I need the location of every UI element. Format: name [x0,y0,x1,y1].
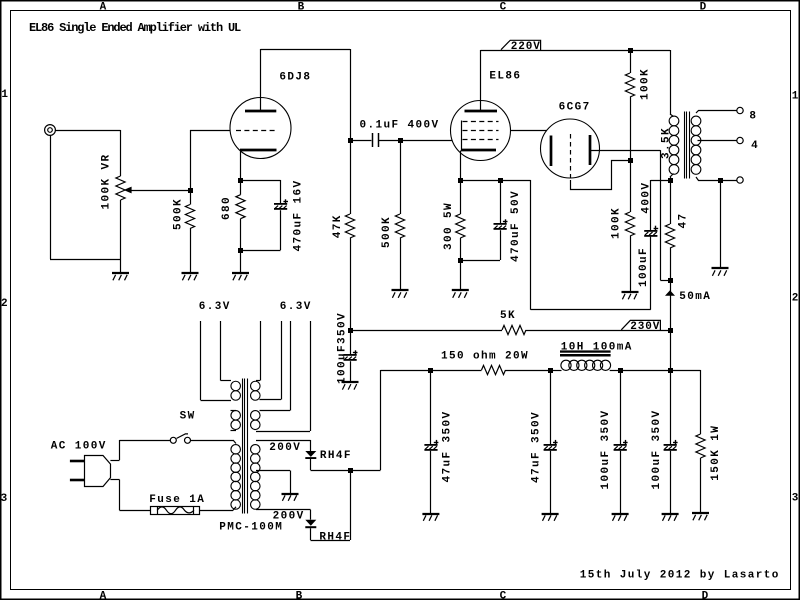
flag 230V outline [621,320,660,330]
wire heater lead 6 horn [256,431,310,433]
wire C7 bottom lead [550,451,552,514]
wire HV top lead [256,440,311,442]
node secondary ground junction [718,178,723,183]
tube V2 g2 dashes [463,130,499,132]
svg-text:6.3V: 6.3V [280,301,312,313]
svg-text:RH4F: RH4F [320,450,352,462]
switch SW pole [170,437,176,443]
node V2 cathode bottom junction [458,258,463,263]
plug P1 prong lower [70,479,84,482]
node filter cap 1 junction [428,368,433,373]
wire to switch [120,440,171,442]
tube V3 6CG7 envelope [541,119,600,178]
wire R-680 bottom lead [240,219,242,250]
wire C8 bottom lead [620,451,622,514]
capacitor C4 100uF 400V [644,226,658,237]
svg-text:8: 8 [749,111,757,123]
ground under C8 [612,514,629,521]
svg-text:AC 100V: AC 100V [51,441,107,453]
terminal 4 ohm [737,137,743,143]
svg-text:D: D [702,590,710,600]
svg-text:47uF 350V: 47uF 350V [442,410,454,482]
tube V3 grid dashes [570,134,572,180]
diode D1 RH4F [305,451,316,457]
transformer T1 primary winding [669,116,679,174]
wire V1 cathode lead [240,151,242,181]
transformer T1 core [684,112,686,179]
svg-text:500K: 500K [173,198,185,230]
transformer T2 heater winding right-b [251,411,260,430]
wire HV bottom lead [256,509,311,511]
wire D2 cathode down [310,528,312,540]
wire VR bottom lead [120,200,122,273]
node top rail junction [628,48,633,53]
fuse F1 body [151,507,200,515]
wire to diode D1 [310,440,312,451]
transformer T2 core [242,379,244,514]
wire arrow segment [670,280,672,330]
node grid divider junction [628,158,633,163]
wire to fuse [120,510,151,512]
svg-text:C: C [500,1,508,13]
tube V2 cathode bar [461,149,496,152]
tube V1 grid dashes [236,130,277,132]
wire R-300 bottom lead [460,238,462,260]
tube V2 plate bar [465,110,498,113]
svg-text:RH4F: RH4F [319,531,351,543]
wire R-47 top lead [670,180,672,224]
wire plug neutral drop [119,480,121,511]
plug P1 body [85,456,111,487]
wire down to plate node [350,49,352,140]
svg-text:6CG7: 6CG7 [559,102,591,114]
capacitor C2 470uF 16V [274,199,288,210]
wire VR top lead [120,130,122,176]
resistor R3 47K zigzag [345,214,354,238]
switch SW lever [177,434,188,439]
wire R-100K-a bottom lead [630,97,632,161]
resistor R2 680 zigzag [236,195,245,219]
potentiometer VR1 wiper arrow [124,187,132,194]
wire OPT secondary top lead [696,111,737,114]
svg-text:680: 680 [221,196,233,220]
wire wiper to grid node [131,190,190,192]
wire unused winding stub bottom [231,430,237,432]
wire primary bottom curve [233,507,236,511]
node EL86 grid junction [398,138,403,143]
tube V2 g1 dashes [463,139,499,141]
wire C3 bottom to junction [460,260,500,262]
wire R-100K-a top lead [630,50,632,73]
wire C9 bottom lead [670,451,672,514]
wire filter rail b [506,370,551,372]
svg-text:50mA: 50mA [679,291,711,303]
wire V1 plate lead up [260,49,262,110]
wire fuse to primary [200,510,233,512]
wire choke left lead [550,370,561,372]
wire R-47 bottom lead [670,248,672,280]
wire 230V rail right [526,330,670,332]
svg-text:1: 1 [1,89,9,101]
wire C2 bottom to junction [241,250,281,252]
wire heater lead 5 horn [260,410,291,412]
wire cathode to C3 top [460,180,500,182]
svg-text:100uF 350V: 100uF 350V [600,409,612,489]
wire grid node up [190,130,192,190]
switch SW throw [185,437,191,443]
capacitor C1 0.1uF plates [372,133,374,147]
svg-text:10H 100mA: 10H 100mA [561,341,633,353]
terminal 8 ohm [737,107,743,113]
wire C4 top lead [650,180,652,230]
svg-text:220V: 220V [511,41,541,53]
wire V2 cathode lead [460,151,462,181]
wire heater lead 1 horn [201,400,232,402]
wire R-150K top lead [700,370,702,434]
node filter cap 4 junction [668,368,673,373]
transformer T2 primary winding [231,445,241,510]
svg-text:2: 2 [792,293,800,305]
wire unused winding stub top [231,410,237,412]
svg-text:C: C [500,590,508,600]
wire V3 plate down [660,150,662,280]
node V1 cathode junction [238,178,243,183]
capacitor C7 47uF 350V [544,440,558,451]
wire heater lead 3 horn [256,380,260,382]
resistor R4 500K zigzag [395,214,404,238]
wire 230V rail left [350,330,502,332]
svg-text:100K: 100K [640,68,652,100]
svg-text:100K VR: 100K VR [101,153,113,209]
wire B+ top run [481,50,671,52]
svg-text:400V: 400V [641,182,653,214]
svg-text:EL86: EL86 [489,70,521,82]
tube V3 plate bar [589,135,592,165]
wire R-100K-b top lead [630,161,632,213]
ground under R11 [692,513,709,520]
node 230V rail right junction [668,328,673,333]
svg-text:PMC-100M: PMC-100M [219,521,283,533]
tube V1 plate bar [245,110,276,113]
ground under R2 [232,273,249,280]
node filter cap 3 junction [618,368,623,373]
svg-text:47uF 350V: 47uF 350V [530,411,542,483]
wire bootstrap down [530,180,532,310]
svg-text:D: D [700,1,708,13]
svg-text:5K: 5K [500,310,516,322]
wire D1 cathode down [310,459,312,470]
svg-text:SW: SW [180,411,196,423]
wire heater lead 3 [260,321,262,381]
tube V2 EL86 envelope [451,101,511,161]
svg-text:150K 1W: 150K 1W [710,425,722,481]
wire OPT secondary tap lead [698,140,737,142]
wire V3 plate to node [660,280,670,282]
resistor R5 100K zigzag [625,73,634,97]
transformer T2 HV winding [251,445,260,510]
svg-text:230V: 230V [630,321,660,333]
svg-text:B: B [298,1,306,13]
svg-text:47K: 47K [332,214,344,238]
terminal common [737,177,743,183]
wire jack sleeve down [50,136,52,260]
ground under C6 [422,514,439,521]
ground under C5 [342,382,359,390]
wire filter rail d [670,370,700,372]
tube V2 g3-cathode link [461,121,463,151]
ground under R7 [622,292,639,299]
wire OPT secondary bottom lead [696,177,737,181]
ground center tap [282,494,299,501]
wire OPT primary top curve [670,114,674,117]
wire C6 top lead [430,370,432,444]
svg-text:B: B [296,590,304,600]
node 230V rail left junction [348,328,353,333]
svg-text:100uF: 100uF [638,247,650,287]
wire jack sleeve to VR bottom [50,259,121,261]
input jack outer ring [45,125,56,136]
wire heater lead 2 horn [221,380,232,382]
svg-text:47: 47 [678,212,690,228]
wire to diode D2 [310,510,312,520]
wire C5 bottom lead [350,361,352,382]
ground under C7 [542,514,559,521]
svg-text:100uF350V: 100uF350V [336,312,348,384]
svg-text:200V: 200V [269,442,301,454]
node filter cap 2 junction [548,368,553,373]
wire D1 to bus [311,470,381,472]
wire V2 plate lead up [480,50,482,110]
input jack inner ring [48,128,53,133]
wire plate top run [261,49,351,51]
potentiometer VR1 100K zigzag [116,176,125,200]
wire OPT primary bottom curve [670,174,674,178]
wire R-47K top lead [350,140,352,214]
node plate junction [348,138,353,143]
svg-text:EL86 Single Ended Amplifier wi: EL86 Single Ended Amplifier with UL [29,21,241,35]
ground under C9 [662,514,679,521]
svg-text:6.3V: 6.3V [199,301,231,313]
wire V3 grid lead [571,161,629,190]
wire center tap drop [290,471,292,494]
svg-text:15th July 2012 by Lasarto: 15th July 2012 by Lasarto [580,569,780,581]
wire switch to primary [191,440,233,442]
svg-text:2: 2 [1,298,9,310]
transformer T2 unused winding left-b [231,411,241,430]
svg-text:1: 1 [792,91,800,103]
wire heater lead 1 [200,321,202,400]
wire C4 to primary bottom [651,180,670,182]
wire primary top curve [233,440,236,444]
ground under R1 [182,273,199,280]
wire to ground under 680 [240,250,242,273]
wire cathode node right [500,180,531,182]
resistor R6 300 5W zigzag [456,214,465,238]
ground under VR1 [112,273,129,280]
wire filter rail c [620,370,670,372]
tube V1 6DJ8 envelope [230,98,291,159]
wire C7 top lead [550,370,552,444]
wire jack tip to VR top [56,130,121,132]
svg-text:300 5W: 300 5W [443,202,455,250]
transformer T2 heater winding left-a [231,381,241,400]
wire R-500K-b top lead [400,140,402,214]
node V2 cathode junction [458,178,463,183]
wire C2 top lead [280,180,282,204]
node cathode bottom junction [238,248,243,253]
wire OPT primary top lead [670,50,672,114]
wire to C1 left [350,140,371,142]
capacitor C8 100uF 350V [614,440,628,451]
svg-text:100K: 100K [611,207,623,239]
wire to 6DJ8 grid [190,130,230,132]
svg-text:200V: 200V [273,510,305,522]
wire R-500K-a top lead [190,190,192,205]
plug P1 prong upper [70,460,84,463]
transformer T1 secondary winding [691,116,701,174]
wire heater lead 4 [281,321,283,400]
wire secondary to ground [720,180,722,269]
capacitor C5 100uF 350V [344,350,358,361]
wire filter rail a [381,370,482,372]
wire C9 top lead [670,370,672,444]
capacitor C6 47uF 350V [424,440,438,451]
wire HV center tap lead [256,470,290,472]
node C3 top junction [498,178,503,183]
wire C1 right [379,140,400,142]
wire R-47K bottom lead [350,238,352,330]
wire heater lead 2 [220,321,222,381]
wire R-500K-a bottom lead [190,229,192,274]
inductor L1 10H choke coil [561,360,611,370]
wire R-500K-b bottom lead [400,238,402,291]
inductor L1 core bars [560,350,611,352]
resistor R8 47 zigzag [665,224,674,248]
node rectifier bus junction [348,468,353,473]
ground under R4 [392,290,409,298]
svg-text:A: A [100,590,108,600]
wire R-300 top lead [460,180,462,214]
resistor R9 5K zigzag [502,325,526,334]
ground under R6 [452,290,469,298]
wire choke right lead [610,370,620,372]
wire rectifier riser [380,370,382,470]
wire bootstrap across [531,309,651,311]
wire to ground under R6 [460,260,462,291]
wire R-100K-b bottom lead [630,236,632,292]
svg-text:100uF 350V: 100uF 350V [651,409,663,489]
ground under secondary [712,268,729,276]
svg-text:3.5K: 3.5K [661,127,673,159]
tube V2 g3 dashes [463,121,499,123]
node grid-1 junction [188,188,193,193]
wire C5 top lead [350,330,352,355]
wire riser to bus [350,470,352,540]
svg-text:500K: 500K [381,216,393,248]
svg-text:6DJ8: 6DJ8 [279,71,311,83]
wire cathode to C2 top [241,180,281,182]
svg-text:3: 3 [792,493,800,505]
svg-text:A: A [100,1,108,13]
wire C3 top lead [500,180,502,224]
wire C2 bottom lead [280,210,282,250]
wire bootstrap up to C4 [650,237,652,310]
wire plug neutral terminal [110,479,119,481]
wire heater lead 4 horn [260,399,282,401]
wire C8 top lead [620,370,622,444]
wire C3 bottom lead [500,230,502,260]
capacitor C9 100uF 350V [664,440,678,451]
svg-text:0.1uF 400V: 0.1uF 400V [360,120,440,132]
wire R-680 top lead [240,180,242,195]
wire R-150K bottom lead [700,458,702,513]
svg-text:470uF 50V: 470uF 50V [510,190,522,262]
svg-text:Fuse 1A: Fuse 1A [149,494,205,506]
wire heater lead 5 [290,321,292,411]
wire to EL86 grid [400,140,452,142]
svg-text:3: 3 [1,493,9,505]
flag 220V outline [501,40,541,50]
tube V3 cathode bar [550,136,553,167]
node primary bottom junction [668,178,673,183]
current arrow 50mA [665,290,675,296]
wire plug hot riser [119,440,121,460]
wire C6 bottom lead [430,451,432,514]
diode D2 RH4F [305,520,316,526]
wire V3 plate run [591,150,661,152]
capacitor C3 470uF 50V [494,219,508,230]
wire 230V to choke rail [670,330,672,370]
wire D2 to riser [311,540,351,542]
node UL drive junction [668,278,673,283]
wire plug hot terminal [110,460,119,462]
resistor R10 150ohm 20W zigzag [482,365,506,374]
tube V1 cathode bar [240,149,277,152]
svg-text:4: 4 [751,140,759,152]
resistor R1 500K zigzag [185,205,194,229]
wire heater lead 6 [310,321,312,431]
resistor R11 150K zigzag [696,434,705,458]
wire V2 g2 to V3 cathode [511,130,547,132]
resistor R7 100K zigzag [625,212,634,236]
svg-text:150 ohm 20W: 150 ohm 20W [441,351,529,363]
transformer T2 heater winding right-a [251,381,260,400]
svg-text:470uF 16V: 470uF 16V [293,179,305,251]
